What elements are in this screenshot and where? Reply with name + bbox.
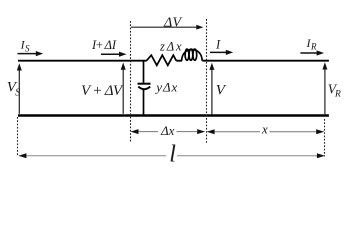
arrow I_S [18,51,44,56]
svg-text:I+ΔI: I+ΔI [91,38,117,52]
resistor z-delta-x zigzag [147,55,177,65]
svg-text:l: l [169,141,176,167]
wire between resistor and inductor [176,60,182,62]
dimension l [18,153,325,158]
svg-text:x: x [261,122,268,137]
svg-text:zΔx: zΔx [159,40,182,54]
arrow V + delta-V [121,63,126,114]
svg-text:R: R [310,41,317,51]
dimension delta-x [131,129,206,134]
dashed construction line at x=130 [130,21,132,143]
svg-text:V + ΔV: V + ΔV [81,83,124,99]
svg-text:ΔV: ΔV [163,15,182,30]
svg-text:S: S [25,43,30,53]
arrow I + delta-I [101,52,127,57]
dashed construction line bottom right [324,119,326,157]
node junction at shunt branch [143,61,145,83]
wire bottom conductor [18,114,329,116]
wire top conductor right segment [202,60,329,62]
arrow V_R [322,62,327,114]
arrow delta-V [131,25,203,30]
capacitor y-delta-x [138,84,151,116]
svg-text:I: I [215,37,221,51]
dashed construction line bottom left [17,117,19,157]
arrow V_S [17,63,22,114]
dashed construction line at x=206 [206,19,208,143]
arrow I [210,50,233,55]
svg-text:R: R [334,90,341,100]
svg-text:yΔx: yΔx [154,80,177,95]
svg-text:Δx: Δx [160,123,175,138]
dimension x [207,129,325,134]
wire top conductor left segment [18,60,147,62]
arrow V [209,63,214,115]
inductor coil of z-delta-x [182,49,202,61]
arrow I_R [300,50,324,55]
